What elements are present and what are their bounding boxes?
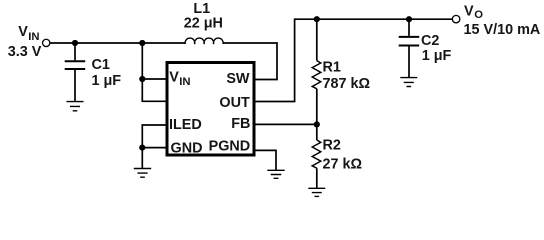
capacitor C2 <box>408 19 410 36</box>
wire inductor to SW pin <box>223 43 277 80</box>
svg-text:IN: IN <box>179 76 190 88</box>
wire FB pin to divider <box>254 123 317 125</box>
svg-text:SW: SW <box>226 71 250 87</box>
ground (R2) <box>308 188 325 196</box>
junction node VIN pin <box>139 76 145 82</box>
svg-text:R2: R2 <box>323 138 341 154</box>
junction node input/left rail <box>139 40 145 46</box>
svg-text:FB: FB <box>231 116 250 132</box>
svg-text:R1: R1 <box>323 60 341 76</box>
wire GND pin stub <box>142 147 165 149</box>
capacitor C1 <box>74 43 76 60</box>
ground (PGND) <box>267 170 284 178</box>
svg-text:V: V <box>464 3 474 19</box>
svg-text:3.3 V: 3.3 V <box>8 44 42 60</box>
junction node GND <box>139 145 145 151</box>
junction node R1 top <box>314 16 320 22</box>
svg-text:1 μF: 1 μF <box>92 73 122 89</box>
resistor R2 <box>316 124 318 187</box>
svg-text:27 kΩ: 27 kΩ <box>323 156 363 172</box>
ground (C2) <box>400 78 417 87</box>
svg-text:OUT: OUT <box>219 95 250 111</box>
wire PGND pin to ground <box>254 150 276 170</box>
wire input rail <box>50 42 185 44</box>
junction node FB/divider <box>314 121 320 127</box>
terminal VIN input <box>43 39 50 46</box>
svg-text:787 kΩ: 787 kΩ <box>323 76 371 92</box>
svg-text:O: O <box>474 9 483 21</box>
terminal VO output <box>452 15 460 23</box>
svg-text:C2: C2 <box>421 33 439 49</box>
svg-text:15 V/10 mA: 15 V/10 mA <box>464 22 541 38</box>
svg-text:V: V <box>169 70 179 86</box>
svg-text:22 μH: 22 μH <box>184 16 223 32</box>
wire OUT pin to output rail <box>254 19 453 101</box>
junction node C2 top <box>406 16 412 22</box>
wire left rail to EN stub <box>142 43 165 101</box>
svg-text:1 μF: 1 μF <box>422 48 452 64</box>
svg-text:ILED: ILED <box>169 117 202 133</box>
wire VIN pin stub <box>142 78 165 80</box>
svg-text:GND: GND <box>171 140 203 156</box>
svg-text:PGND: PGND <box>209 138 251 154</box>
ground (C1) <box>67 102 84 111</box>
inductor L1 <box>185 38 223 44</box>
junction node input/C1 <box>72 40 78 46</box>
ground (IC GND) <box>134 169 151 178</box>
wire ILED pin <box>142 125 165 148</box>
resistor R1 <box>316 19 318 124</box>
svg-text:V: V <box>18 24 28 40</box>
svg-text:C1: C1 <box>92 57 110 73</box>
svg-text:IN: IN <box>28 31 39 43</box>
op IC U1 box <box>167 63 254 156</box>
wire GND to ground <box>141 148 143 169</box>
